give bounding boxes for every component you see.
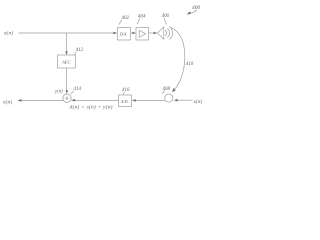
wire amplifier to loudspeaker <box>149 32 155 34</box>
svg-text:s(n): s(n) <box>194 98 203 105</box>
numeral 416 with leader <box>122 88 130 93</box>
svg-text:416: 416 <box>122 88 130 93</box>
svg-text:404: 404 <box>138 15 146 20</box>
svg-text:410: 410 <box>186 62 194 67</box>
numeral 404 with leader <box>138 15 146 20</box>
wire output e(n) from summing node <box>21 99 63 101</box>
acoustic echo path arc 410 from speaker to microphone <box>171 27 185 90</box>
numeral 412 with leader <box>76 48 84 53</box>
label y(n) echo estimate <box>54 90 63 95</box>
A/D box 416 <box>119 95 132 107</box>
wire D/A to amplifier <box>131 32 133 34</box>
AEC box 412 <box>58 55 76 68</box>
near-end input s(n) into microphone <box>177 99 193 101</box>
summing node 414 <box>63 94 71 102</box>
loudspeaker 406 <box>158 27 164 39</box>
svg-text:e(n): e(n) <box>3 99 12 106</box>
svg-text:D/A: D/A <box>119 32 127 37</box>
svg-text:x(n): x(n) <box>3 30 13 37</box>
svg-text:A/D: A/D <box>120 99 128 104</box>
wire summing node to A/D box <box>75 99 119 101</box>
svg-text:y(n): y(n) <box>54 90 63 95</box>
numeral 406 with leader <box>162 14 170 19</box>
numeral 402 with leader <box>122 16 130 21</box>
wire branch from top rail down to AEC <box>66 33 68 52</box>
svg-text:408: 408 <box>163 87 171 92</box>
svg-text:412: 412 <box>76 48 84 53</box>
numeral 408 with leader <box>163 87 171 92</box>
svg-text:AEC: AEC <box>61 60 72 65</box>
svg-text:400: 400 <box>192 5 200 11</box>
svg-text:406: 406 <box>162 14 170 19</box>
microphone 408 <box>165 94 173 102</box>
numeral 410 arc label <box>186 62 194 67</box>
node e(n) output label <box>3 99 12 106</box>
box D/A 402 <box>118 28 131 41</box>
svg-text:d(n) = s(n) + y(n): d(n) = s(n) + y(n) <box>70 104 113 111</box>
svg-text:414: 414 <box>74 87 82 92</box>
amplifier box 404 <box>136 28 149 41</box>
equation label d(n) = s(n) + y(n) <box>70 104 113 111</box>
wire top rail from x(n) to D/A box <box>19 32 115 34</box>
svg-text:402: 402 <box>122 16 130 21</box>
figure numeral 400 with arrow <box>192 5 200 11</box>
wire A/D to microphone <box>135 99 165 101</box>
numeral 414 with leader <box>74 87 82 92</box>
wire AEC down to summing node <box>66 68 68 91</box>
node x(n) input label <box>3 30 13 37</box>
